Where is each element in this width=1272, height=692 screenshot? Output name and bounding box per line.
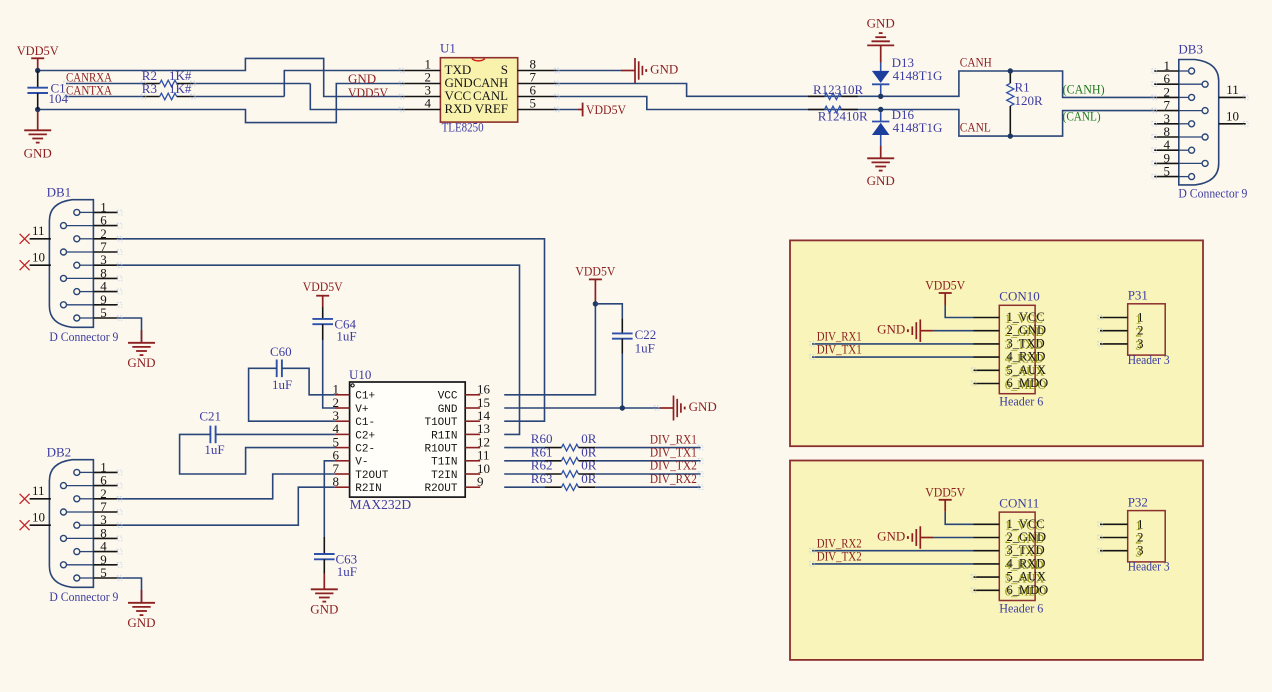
svg-text:VDD5V: VDD5V (925, 278, 966, 293)
ground port GND (CON11) (877, 526, 933, 549)
svg-text:V-: V- (355, 457, 368, 469)
wire - CANTXA to U1 pin1 TXD (66, 71, 402, 97)
svg-text:10R: 10R (846, 109, 868, 124)
svg-text:VDD5V: VDD5V (17, 43, 60, 58)
svg-text:VREF: VREF (475, 101, 508, 116)
ground GND (DB1 pin5) (127, 330, 155, 370)
ground GND (below C63) (310, 574, 338, 617)
connector DB1 D Connector 9 (47, 184, 119, 344)
svg-text:10R: 10R (842, 82, 864, 97)
svg-text:11: 11 (32, 223, 45, 238)
wire - U1 pin5 VREF to VDD5V port (557, 109, 578, 111)
power port VDD5V (at U1 pin5) (578, 102, 627, 117)
node - R1 top junction (1008, 68, 1013, 73)
capacitor C64 1uF (312, 307, 356, 344)
header P32 Header 3 (1100, 494, 1170, 573)
svg-text:11: 11 (32, 483, 45, 498)
container box (CON10) (790, 240, 1203, 446)
svg-text:5: 5 (1164, 164, 1171, 179)
resistor R3 1K# (142, 81, 193, 100)
power port VDD5V (top-left) (17, 43, 60, 70)
capacitor C21 1uF (199, 409, 224, 457)
wire - DB2 pin2 to U10 pin7 T2OUT (118, 474, 335, 499)
ground GND (below D16) (867, 146, 895, 188)
svg-text:Header 6: Header 6 (999, 394, 1043, 409)
ground port GND (at U1 pin8) (621, 58, 678, 83)
svg-text:1uF: 1uF (337, 564, 357, 579)
svg-text:4_RXD: 4_RXD (1007, 556, 1046, 570)
svg-text:R1OUT: R1OUT (424, 444, 457, 456)
svg-text:DIV_TX1: DIV_TX1 (817, 342, 862, 357)
svg-text:1K#: 1K# (169, 81, 192, 96)
capacitor C60 1uF (270, 344, 292, 392)
svg-text:RXD: RXD (445, 101, 472, 116)
wire - VDD5V to CON11 pin1 (945, 512, 974, 525)
wire - CANRXA to U1 pin4 RXD (66, 84, 402, 110)
svg-text:120R: 120R (1015, 93, 1044, 108)
node - CANH/D13 junction (878, 94, 883, 99)
ground GND (above D13, inverted) (867, 16, 895, 63)
resistor R63 0R (531, 471, 597, 491)
svg-text:C21: C21 (199, 409, 221, 424)
svg-text:T2OUT: T2OUT (355, 470, 388, 482)
node - R1 bottom junction (1008, 133, 1013, 138)
svg-text:10: 10 (32, 250, 45, 265)
svg-text:R1IN: R1IN (431, 430, 457, 442)
svg-text:1uF: 1uF (336, 329, 356, 344)
svg-text:VDD5V: VDD5V (586, 102, 627, 117)
wire - VDD5V to CON10 pin1 (945, 305, 974, 318)
svg-text:GND: GND (877, 528, 905, 543)
svg-text:U1: U1 (440, 41, 456, 56)
svg-text:GND: GND (438, 404, 458, 416)
ground port GND (at U10 pin15) (660, 396, 717, 421)
svg-text:11: 11 (1226, 82, 1239, 97)
wire end markers (64, 68, 1248, 592)
wire - C21 right to U10 pin4 C2+ (216, 433, 335, 435)
svg-text:R2IN: R2IN (355, 483, 381, 495)
svg-text:CON10: CON10 (999, 289, 1039, 304)
svg-text:GND: GND (877, 322, 905, 337)
diode D16 4148T1G (872, 107, 943, 146)
ground GND (DB2 pin5) (127, 590, 155, 630)
svg-text:VCC: VCC (438, 391, 458, 403)
svg-text:5_AUX: 5_AUX (1007, 570, 1047, 584)
wire - DIV_TX1 to CON10 pin4 (812, 356, 974, 358)
svg-text:P32: P32 (1128, 494, 1148, 509)
svg-text:5: 5 (100, 305, 107, 320)
svg-text:3_TXD: 3_TXD (1007, 543, 1045, 557)
ground GND (below C1) (24, 112, 52, 161)
wire - C60 left to U10 pin3 C1- (249, 368, 335, 421)
wire - C21 left to U10 pin5 C2- (loop below) (180, 434, 335, 474)
svg-text:GND: GND (24, 146, 52, 161)
resistor R123 10R (808, 82, 864, 100)
svg-text:Header 3: Header 3 (1128, 352, 1170, 367)
header P31 Header 3 (1100, 288, 1170, 367)
node - CANL/D16 junction (878, 107, 883, 112)
svg-text:TLE8250: TLE8250 (442, 120, 484, 135)
svg-text:4148T1G: 4148T1G (893, 120, 943, 135)
resistor R124 10R (808, 106, 868, 123)
power port VDD5V (above C22) (575, 264, 616, 304)
svg-text:6_MDO: 6_MDO (1007, 376, 1049, 390)
header CON11 Header 6 (974, 496, 1049, 616)
wire - junction to C22 (595, 304, 622, 319)
header CON10 Header 6 (974, 289, 1049, 409)
svg-text:6_MDO: 6_MDO (1007, 583, 1049, 597)
wire - DIV_TX2 to CON11 pin4 (812, 563, 974, 565)
svg-text:9: 9 (477, 474, 484, 489)
svg-text:CANTXA: CANTXA (66, 82, 113, 97)
svg-text:C1-: C1- (355, 417, 375, 429)
wire - ground port to CON10 pin2 (934, 330, 974, 332)
svg-text:1uF: 1uF (272, 377, 292, 392)
svg-text:1_VCC: 1_VCC (1007, 517, 1045, 531)
svg-text:GND: GND (867, 173, 895, 188)
svg-text:DB2: DB2 (47, 444, 72, 459)
pin 11 of DB2 (no connect) (20, 483, 51, 504)
wire - ground port to CON11 pin2 (934, 537, 974, 539)
svg-text:VDD5V: VDD5V (925, 484, 966, 499)
svg-text:5: 5 (530, 96, 537, 111)
wire - U1 pin6 CANL to DB3 pin7 (557, 97, 1154, 137)
svg-text:VDD5V: VDD5V (575, 264, 616, 279)
svg-text:C2-: C2- (355, 444, 375, 456)
resistor R1 120R (1007, 71, 1043, 136)
pin 11 of DB1 (no connect) (20, 223, 51, 244)
wire - U1 pin7 CANH to DB3 pin2 (557, 71, 1154, 97)
pin 10 of DB2 (no connect) (20, 510, 51, 531)
svg-text:C1+: C1+ (355, 391, 375, 403)
wire - DB1 pin2 to U10 pin14 T1OUT (118, 239, 545, 421)
node - VDD5V/C22 junction (593, 301, 598, 306)
svg-text:P31: P31 (1128, 288, 1148, 303)
svg-text:VDD5V: VDD5V (303, 279, 344, 294)
svg-text:2_GND: 2_GND (1007, 530, 1047, 544)
svg-text:GND: GND (650, 61, 678, 76)
node - VDD5V/C1 junction (35, 68, 40, 73)
svg-text:1uF: 1uF (635, 340, 655, 355)
power port VDD5V (CON11) (925, 484, 966, 512)
IC U1 TLE8250 CAN transceiver (402, 41, 557, 135)
svg-text:GND: GND (310, 602, 338, 617)
wire - DIV_RX1 to CON10 pin3 (812, 343, 974, 345)
svg-text:2_GND: 2_GND (1007, 323, 1047, 337)
svg-text:Header 6: Header 6 (999, 600, 1043, 615)
svg-text:4148T1G: 4148T1G (893, 68, 943, 83)
svg-text:D Connector 9: D Connector 9 (1178, 185, 1247, 200)
svg-text:T1IN: T1IN (431, 457, 457, 469)
node - GND/C1 junction (35, 107, 40, 112)
wire - U10 pin9 row R63 (504, 486, 545, 488)
svg-text:MAX232D: MAX232D (350, 497, 412, 512)
svg-text:C2+: C2+ (355, 430, 375, 442)
svg-text:GND: GND (348, 71, 376, 86)
wire - DB1 pin3 to U10 pin13 R1IN (118, 265, 520, 434)
resistor R62 0R (531, 458, 597, 478)
wire - DB1 pin5 to ground (118, 318, 142, 343)
capacitor C63 1uF (314, 537, 357, 579)
svg-text:10: 10 (1226, 108, 1239, 123)
svg-text:DB1: DB1 (47, 184, 72, 199)
wire - U10 pin11 row R61 (504, 460, 545, 462)
svg-text:R2OUT: R2OUT (424, 483, 457, 495)
svg-text:10: 10 (32, 510, 45, 525)
svg-text:U10: U10 (349, 367, 371, 382)
capacitor C1 (27, 71, 68, 110)
wire - U10 pin10 row R62 (504, 473, 545, 475)
resistor R61 0R (531, 444, 597, 464)
svg-text:1_VCC: 1_VCC (1007, 310, 1045, 324)
IC U10 MAX232D (333, 367, 491, 512)
wire - U10 pin12 row R60 (504, 447, 545, 449)
wire - GND rail to U1 pin2 (jog down) (38, 84, 402, 123)
wire - DB2 pin5 to ground (118, 578, 142, 603)
wire - C22 to GND rail (621, 354, 623, 409)
svg-text:5_AUX: 5_AUX (1007, 363, 1047, 377)
svg-text:T1OUT: T1OUT (424, 417, 457, 429)
pin 10 of DB3 (1219, 108, 1246, 123)
svg-text:T2IN: T2IN (431, 470, 457, 482)
svg-text:Header 3: Header 3 (1128, 559, 1170, 574)
wire - DB2 pin3 to U10 pin8 R2IN (118, 487, 335, 525)
svg-text:VDD5V: VDD5V (348, 85, 389, 100)
svg-text:1uF: 1uF (204, 442, 224, 457)
svg-text:CANL: CANL (960, 120, 991, 135)
svg-text:DIV_TX2: DIV_TX2 (817, 549, 862, 564)
resistor R2 1K# (142, 68, 193, 87)
wire - C64 to U10 pin2 V+ (323, 340, 335, 408)
svg-text:0R: 0R (581, 471, 597, 486)
svg-text:(CANH): (CANH) (1063, 82, 1105, 97)
capacitor C22 1uF (612, 318, 656, 355)
svg-text:5: 5 (100, 565, 107, 580)
wire - C60 right to U10 pin1 C1+ (282, 368, 335, 395)
connector DB2 D Connector 9 (47, 444, 119, 604)
svg-text:DB3: DB3 (1178, 42, 1203, 57)
svg-text:GND: GND (127, 355, 155, 370)
wire - U1 pin8 S to ground port (557, 70, 621, 72)
resistor R60 0R (531, 431, 597, 451)
svg-text:GND: GND (127, 615, 155, 630)
svg-text:R124: R124 (818, 109, 847, 124)
node - C22/GND junction (620, 405, 625, 410)
svg-text:D Connector 9: D Connector 9 (49, 329, 118, 344)
svg-text:R63: R63 (531, 471, 553, 486)
svg-text:4_RXD: 4_RXD (1007, 350, 1046, 364)
svg-text:DIV_RX2: DIV_RX2 (650, 471, 697, 486)
wire - U10 pin6 V- to C63 (324, 461, 334, 537)
diode D13 4148T1G (872, 55, 943, 96)
container box (CON11) (790, 461, 1203, 660)
svg-text:3: 3 (1137, 543, 1144, 558)
svg-text:R123: R123 (813, 82, 841, 97)
wire - U10 pin15 GND to ground port (504, 407, 659, 409)
svg-text:C60: C60 (270, 344, 292, 359)
svg-text:V+: V+ (355, 404, 368, 416)
connector DB3 D Connector 9 (1154, 42, 1247, 201)
power port VDD5V (CON10) (925, 278, 966, 306)
svg-text:4: 4 (425, 96, 432, 111)
pin 10 of DB1 (no connect) (20, 250, 51, 271)
power port VDD5V (above C64) (303, 279, 344, 307)
svg-text:8: 8 (333, 474, 340, 489)
wire - DIV_RX2 to CON11 pin3 (812, 550, 974, 552)
pin 11 of DB3 (1219, 82, 1246, 97)
svg-text:GND: GND (867, 16, 895, 31)
svg-text:D Connector 9: D Connector 9 (49, 589, 118, 604)
svg-text:3_TXD: 3_TXD (1007, 336, 1045, 350)
wire - VDD5V rail to U1 pin3 (jog up) (38, 58, 402, 96)
svg-text:3: 3 (1137, 336, 1144, 351)
svg-text:CON11: CON11 (999, 496, 1039, 511)
ground port GND (CON10) (877, 319, 933, 342)
svg-text:GND: GND (689, 399, 717, 414)
svg-text:(CANL): (CANL) (1063, 109, 1101, 124)
wire - U10 pin16 VCC to VDD5V (504, 304, 595, 395)
svg-text:CANH: CANH (960, 54, 992, 69)
